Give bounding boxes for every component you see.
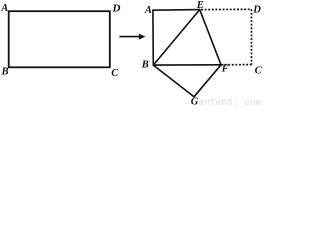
svg-text:D: D (112, 2, 121, 14)
svg-text:anfen5. com: anfen5. com (199, 97, 262, 106)
svg-text:A: A (144, 5, 152, 16)
svg-text:C: C (111, 68, 119, 79)
svg-text:E: E (196, 0, 204, 11)
svg-text:D: D (252, 4, 261, 15)
svg-text:F: F (221, 63, 229, 74)
svg-text:C: C (255, 65, 263, 76)
svg-text:B: B (1, 67, 9, 78)
svg-text:A: A (0, 3, 8, 14)
svg-text:B: B (141, 60, 149, 71)
svg-text:G: G (191, 97, 199, 107)
